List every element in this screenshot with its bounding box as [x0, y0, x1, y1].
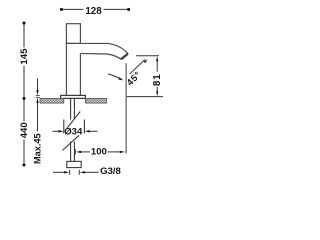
svg-text:128: 128: [85, 6, 102, 17]
svg-text:81: 81: [152, 73, 163, 86]
svg-text:440: 440: [19, 122, 30, 138]
svg-text:100: 100: [91, 147, 107, 158]
svg-text:45°: 45°: [125, 69, 143, 87]
svg-text:Max.45: Max.45: [32, 133, 42, 164]
svg-text:G3/8: G3/8: [100, 166, 121, 177]
svg-text:Ø34: Ø34: [64, 127, 83, 138]
svg-text:145: 145: [19, 48, 30, 65]
